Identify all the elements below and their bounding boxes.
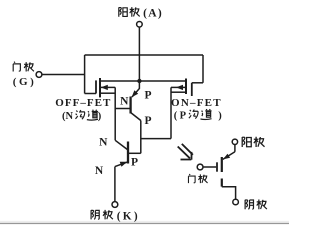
label P (T1 emitter region) (144, 90, 151, 102)
arrow MCT anode (223, 154, 230, 160)
transistor T2 NPN emitter wire (115, 162, 128, 167)
transistor T1 PNP emitter wire (132, 81, 139, 97)
svg-text:P: P (144, 115, 151, 127)
label cathode 阴极（K） (91, 210, 138, 222)
mosfet Q1 OFF-FET channel (99, 78, 101, 97)
terminal K (cathode) (112, 202, 118, 208)
terminal MCT gate (197, 164, 203, 170)
wire gate right stub (192, 82, 203, 84)
terminal MCT anode (232, 139, 237, 144)
mosfet Q2 ON-FET channel (185, 79, 187, 95)
wire MCT cathode lead (222, 187, 236, 199)
wire gate left vertical (84, 55, 86, 94)
label N (T1 base region) (120, 95, 129, 107)
svg-text:N: N (120, 95, 129, 107)
wire Q1 source down (114, 87, 116, 140)
mosfet Q1 OFF-FET gate plate (95, 80, 97, 93)
svg-text:N: N (95, 165, 104, 177)
mosfet Q2 ON-FET gate plate (191, 83, 193, 96)
svg-text:(A): (A) (143, 8, 162, 20)
svg-text:): ) (218, 110, 222, 121)
transistor T2 NPN collector wire (115, 140, 128, 150)
svg-text:(: ( (174, 110, 178, 121)
transistor T2 NPN base bar (127, 142, 129, 164)
mosfet Q2 body lead with arrow (171, 85, 186, 90)
transistor T1 PNP collector (131, 113, 141, 121)
mosfet Q1 body lead with arrow (100, 85, 115, 90)
label P (T1 collector region) (144, 115, 151, 127)
label N (T2 collector region) (99, 137, 108, 149)
svg-text:(G): (G) (13, 76, 34, 88)
label N (T2 emitter region) (95, 165, 104, 177)
terminal A (anode) (137, 22, 143, 28)
svg-text:): ) (98, 111, 102, 122)
wire gate top run (85, 54, 203, 56)
terminal G (gate) (36, 72, 42, 78)
svg-text:ON–FET: ON–FET (171, 97, 221, 109)
svg-text:(K): (K) (117, 210, 138, 222)
transistor T1 PNP base bar (129, 97, 131, 114)
label gate 门极（G） (13, 62, 34, 88)
wire anode lead (138, 27, 140, 81)
wire MCT anode lead (223, 145, 235, 160)
wire T1 collector down (140, 121, 142, 154)
wire gate left stub (85, 93, 96, 95)
svg-text:P: P (131, 156, 138, 168)
svg-text:P: P (144, 90, 151, 102)
gate plate MCT (216, 162, 218, 171)
wire Q2 to base node (141, 138, 171, 140)
symbol double arrow (implies) (178, 144, 193, 160)
terminal MCT cathode (233, 199, 239, 205)
label MCT gate 门极 (188, 174, 207, 183)
mosfet Q1 source lead (100, 92, 115, 94)
svg-text:P: P (180, 110, 187, 121)
bar MCT lower (221, 179, 223, 187)
wire gate right vertical (202, 55, 204, 83)
wire cathode lead (114, 167, 116, 202)
transistor T1 PNP base lead (115, 108, 130, 110)
label MCT cathode 阴极 (245, 200, 267, 210)
mosfet Q2 source lead (171, 91, 186, 93)
node anode junction (137, 79, 141, 83)
label ON-FET (171, 97, 221, 109)
svg-text:N: N (99, 137, 108, 149)
transistor T2 NPN emitter arrow (120, 162, 128, 167)
label (P channel) （P沟道） (174, 109, 223, 121)
svg-text:OFF–FET: OFF–FET (55, 97, 111, 109)
label (N channel) (N沟道) (62, 110, 102, 122)
wire MCT gate lead (203, 166, 216, 168)
transistor T1 PNP emitter arrow (132, 90, 139, 97)
label OFF-FET (55, 97, 111, 109)
transistor T2 NPN base lead (128, 152, 141, 154)
wire Q2 source down (170, 87, 172, 138)
svg-text:(N: (N (62, 111, 73, 122)
bar MCT main (221, 157, 223, 172)
label MCT anode 阳极 (242, 137, 264, 147)
wire gate lead (42, 74, 85, 76)
label anode 阳极（A） (119, 7, 162, 19)
label P (T2 base region) (131, 156, 138, 168)
wire anode bus (100, 80, 186, 82)
